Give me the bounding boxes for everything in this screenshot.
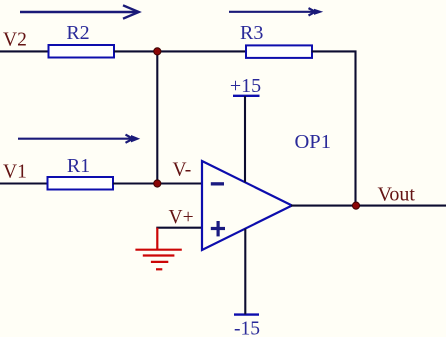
wire V2 to R2 xyxy=(0,50,50,52)
junction node V- xyxy=(154,180,161,187)
wire R3 to output corner xyxy=(312,51,356,206)
current arrow I3 (top right) xyxy=(229,8,323,15)
power -15 supply bar xyxy=(234,313,259,315)
op-amp minus sign xyxy=(211,182,224,185)
wire node A to R3 xyxy=(157,50,247,52)
wire vertical node A to V- node xyxy=(156,50,158,184)
svg-text:-15: -15 xyxy=(234,318,260,337)
wire -15 stem to op-amp xyxy=(244,229,246,315)
svg-text:R1: R1 xyxy=(67,155,90,177)
svg-text:V+: V+ xyxy=(169,207,194,228)
junction node A xyxy=(154,48,161,55)
wire R1 to inverting input xyxy=(113,182,202,184)
op-amp plus sign xyxy=(211,221,225,236)
power +15 supply bar xyxy=(233,95,260,97)
svg-text:R3: R3 xyxy=(240,22,263,44)
op-amp U1 triangle xyxy=(202,161,292,250)
svg-text:+15: +15 xyxy=(230,75,261,97)
current arrow I2 (top left) xyxy=(20,5,139,18)
wire output to Vout xyxy=(291,205,446,207)
wire V+ stub xyxy=(156,227,202,229)
junction node Vout xyxy=(352,202,359,209)
wire R2 to node A xyxy=(114,50,158,52)
svg-text:OP1: OP1 xyxy=(295,131,331,153)
resistor R1 xyxy=(48,177,114,190)
ground xyxy=(135,228,181,270)
current arrow I1 (middle left) xyxy=(18,135,140,143)
svg-text:V2: V2 xyxy=(3,30,27,51)
svg-text:V1: V1 xyxy=(3,161,27,182)
svg-text:R2: R2 xyxy=(66,22,89,44)
wire +15 stem to op-amp xyxy=(244,96,246,182)
resistor R3 xyxy=(246,45,312,58)
svg-text:Vout: Vout xyxy=(378,183,416,205)
resistor R2 xyxy=(49,45,115,58)
svg-text:V-: V- xyxy=(173,160,192,181)
wire V1 to R1 xyxy=(0,182,49,184)
